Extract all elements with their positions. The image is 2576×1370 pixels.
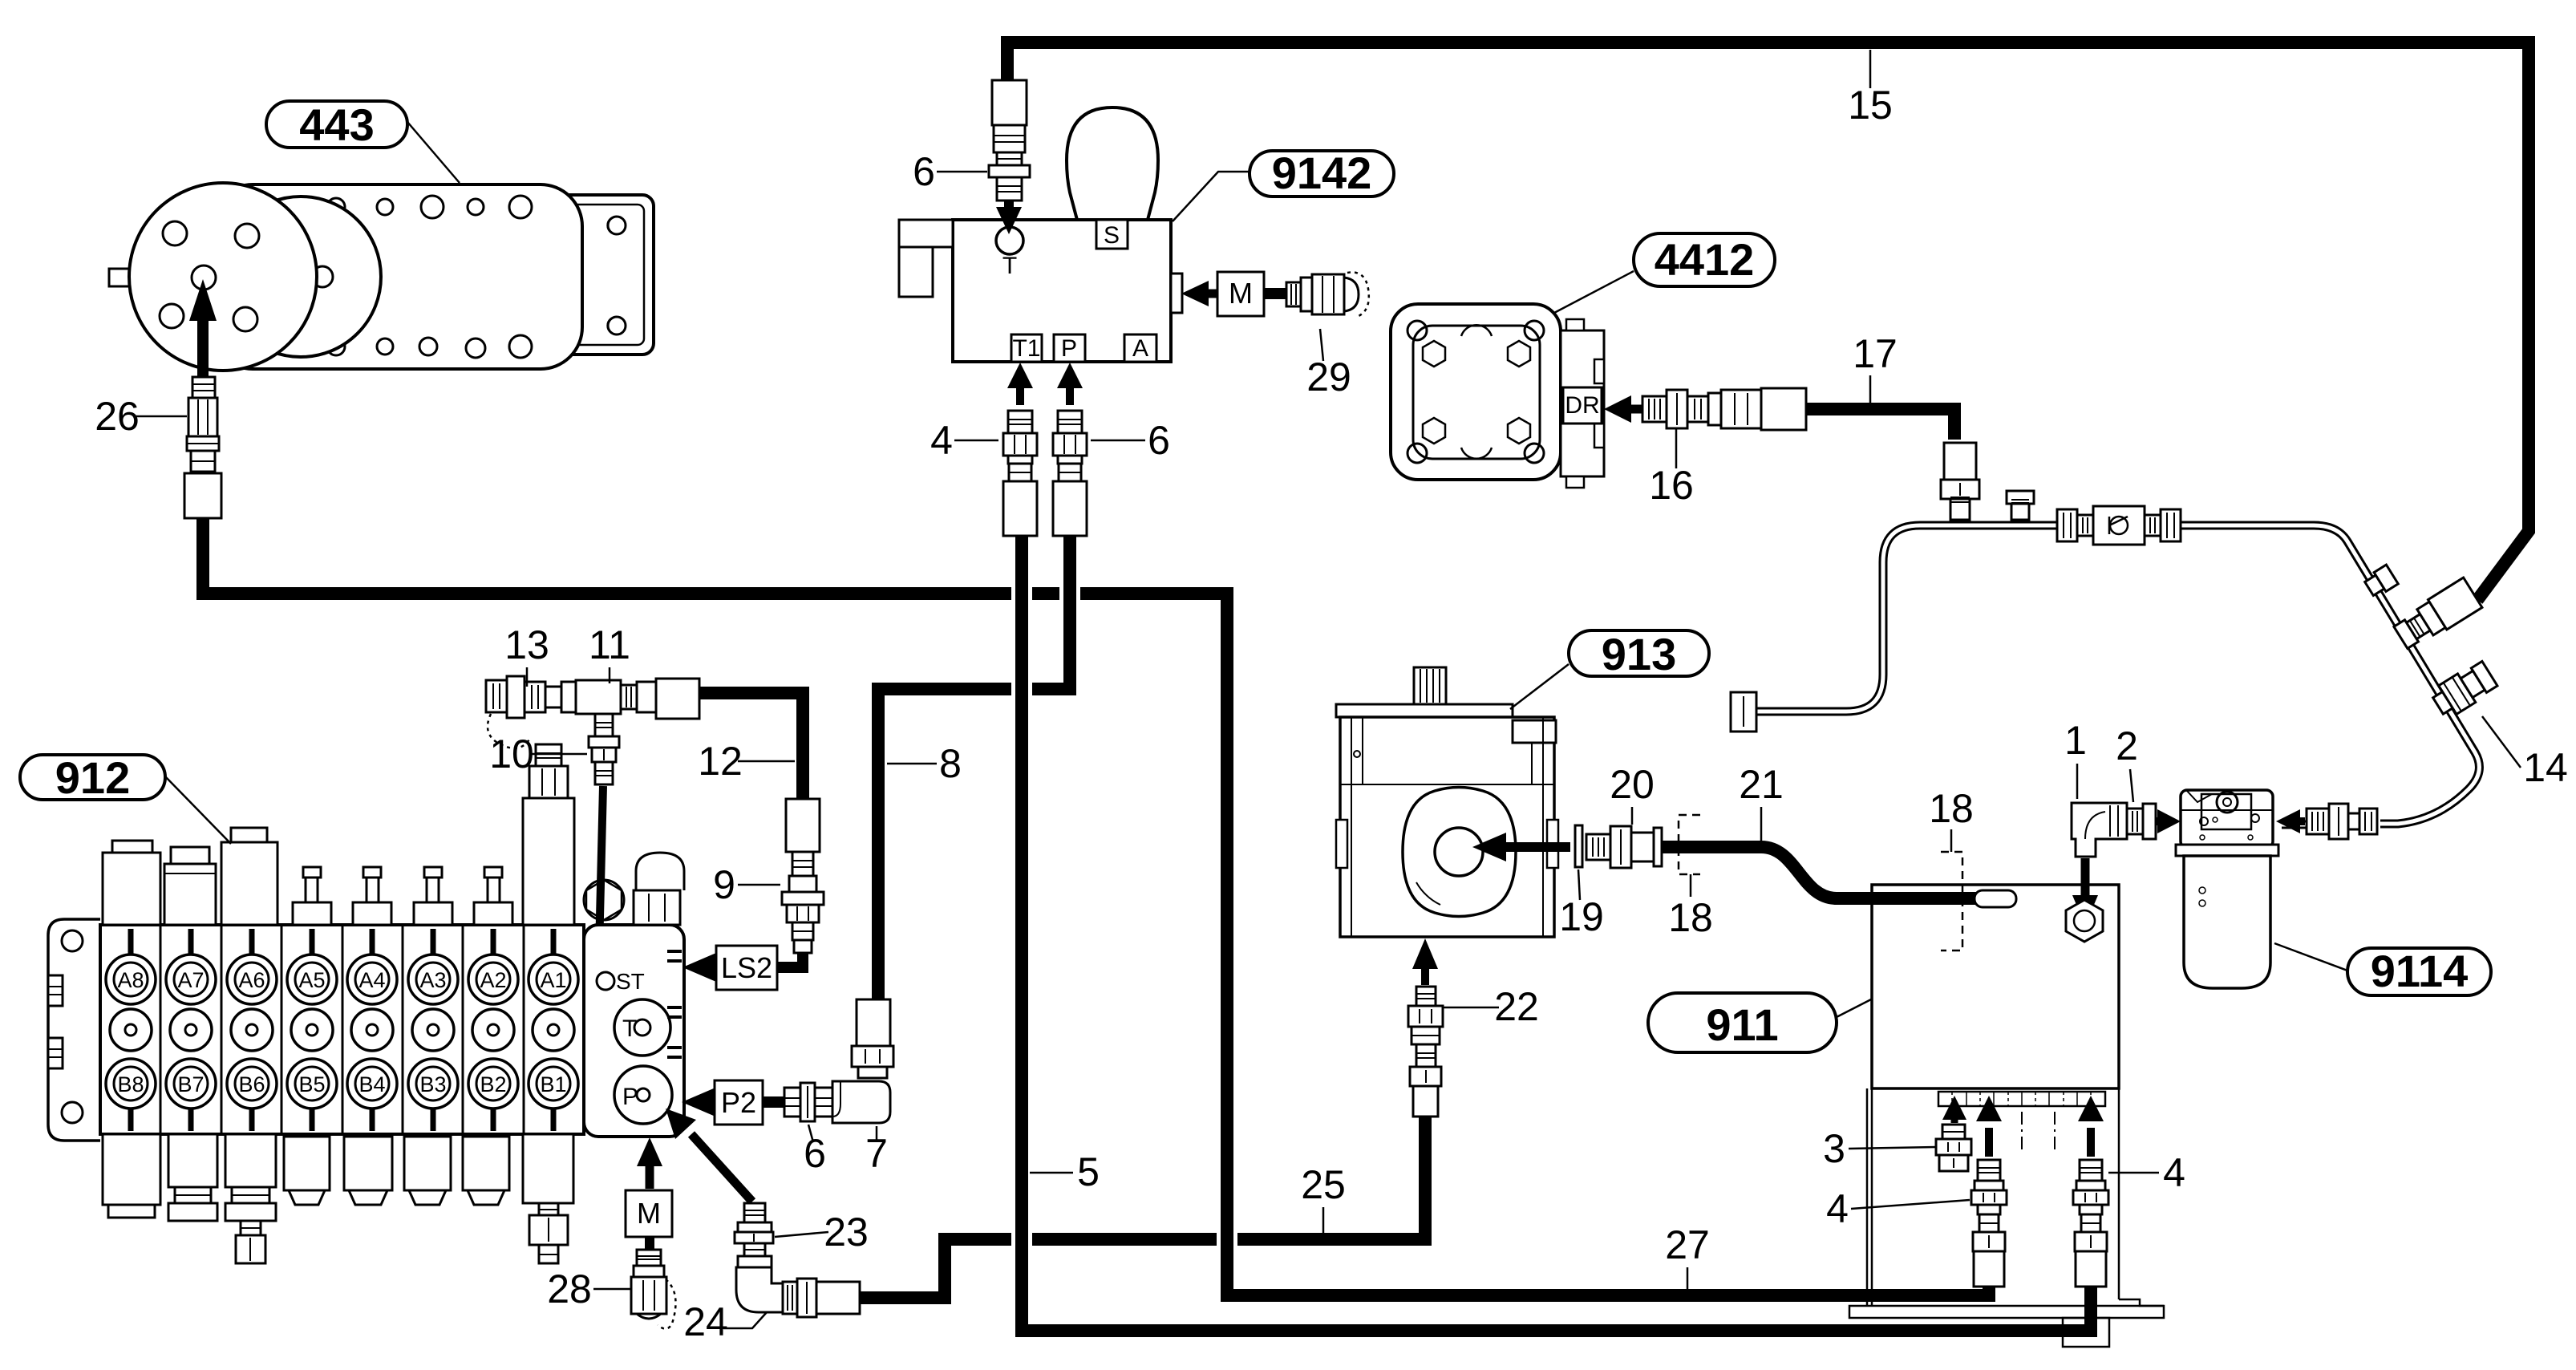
svg-text:11: 11: [589, 622, 630, 667]
label 13: [504, 622, 549, 687]
svg-text:16: 16: [1649, 463, 1694, 508]
svg-text:443: 443: [299, 99, 374, 150]
svg-text:29: 29: [1306, 355, 1351, 399]
label 5: [1030, 1149, 1100, 1194]
svg-text:14: 14: [2523, 745, 2568, 790]
motor 443 body: [211, 184, 582, 369]
svg-text:M: M: [637, 1197, 661, 1230]
fitting 23 (bulkhead): [735, 1203, 773, 1256]
svg-text:18: 18: [1929, 786, 1974, 831]
motor 443 middle flange circle: [221, 197, 381, 357]
tank 911 body: [1872, 885, 2119, 1088]
valve 9142 right port stub: [1171, 274, 1182, 313]
arrow elbow 1 into tank: [2072, 858, 2098, 926]
arrow P2 into end block: [682, 1088, 715, 1117]
hose coupling on tee outlet: [656, 679, 699, 719]
valve cap above A7: [164, 847, 216, 925]
solenoid below B4: [344, 1137, 392, 1205]
wire M box to fitting 28: [645, 1237, 654, 1250]
tee fitting 11: [576, 680, 656, 714]
fitting 16: [1642, 388, 1806, 430]
port box M (9142 gauge): [1217, 272, 1264, 316]
branch fitting 14 port (on pipe diagonal): [2429, 659, 2499, 720]
arrow LS2 into end block: [682, 953, 716, 982]
fitting 10 (below tee): [589, 714, 619, 784]
svg-text:A8: A8: [117, 968, 144, 992]
wire hose 15 (valve 9142 T port to test-point manifold, top run): [1007, 43, 2529, 600]
port box M (912): [626, 1190, 672, 1237]
svg-text:15: 15: [1848, 83, 1893, 128]
valve 912 section ports A6/B6: [227, 929, 277, 1131]
svg-text:9142: 9142: [1272, 148, 1372, 198]
label 10: [489, 732, 587, 776]
svg-text:5: 5: [1077, 1149, 1100, 1194]
svg-text:6: 6: [913, 149, 935, 194]
arrow into 9142 M port: [1181, 281, 1217, 306]
valve 9142 left solenoid blocks: [899, 220, 953, 297]
svg-text:10: 10: [489, 732, 534, 776]
label 24: [683, 1299, 767, 1344]
solenoid below B2: [463, 1137, 509, 1205]
label 18: [1929, 786, 1974, 831]
svg-text:4: 4: [930, 418, 953, 463]
fitting 4 (below T1 port): [1003, 411, 1037, 536]
fitting 9 (bulkhead union): [782, 892, 824, 953]
filter 9114 canister: [2176, 845, 2278, 988]
arrow into P port (from fitting 23): [666, 1109, 752, 1202]
svg-text:P: P: [622, 1084, 638, 1110]
label 8: [887, 741, 962, 786]
hose 21 tank inlet tip: [1975, 890, 2016, 907]
svg-text:B2: B2: [480, 1072, 506, 1096]
svg-text:DR: DR: [1565, 392, 1599, 419]
svg-text:A5: A5: [298, 968, 325, 992]
pipe end nut (part of pipe 14): [1731, 692, 1756, 732]
callout 911: [1648, 993, 1871, 1052]
pipe 14 (steel test-point pipe with branch ports): [1756, 525, 2479, 824]
pump 913 rotor housing: [1403, 788, 1516, 917]
label 6: [913, 149, 987, 194]
arrow pipe into filter head (right side): [2276, 809, 2305, 833]
svg-text:B8: B8: [117, 1072, 144, 1096]
valve 912 main block (8 sections): [100, 925, 584, 1134]
fitting 6 (above T port): [989, 80, 1030, 201]
svg-text:4: 4: [1826, 1186, 1849, 1231]
fitting on filter pipe: [2307, 804, 2377, 839]
pump 913 body: [1336, 704, 1558, 937]
svg-text:M: M: [1229, 277, 1253, 310]
wire hose 21 (pump 913 outlet to tank 911 suction): [1657, 847, 1979, 898]
svg-text:2: 2: [2116, 724, 2138, 768]
port box LS2: [716, 946, 777, 990]
label 27: [1665, 1222, 1710, 1289]
fitting 28 (test coupling with cap): [631, 1250, 676, 1329]
label 19: [1559, 869, 1604, 939]
callout 912: [20, 752, 231, 844]
pump 4412 body: [1391, 304, 1561, 480]
valve cap above A6: [221, 828, 277, 925]
pump 4412 port housing: [1561, 319, 1604, 488]
valve 912 section ports A5/B5: [287, 929, 337, 1131]
label 4: [2108, 1150, 2185, 1195]
callout 9114: [2274, 943, 2491, 996]
label 15: [1848, 50, 1893, 128]
label 6: [1091, 418, 1170, 463]
wire hose 5 (valve 9142 T1 port to tank via fitting 4): [1022, 533, 2091, 1331]
svg-text:12: 12: [698, 739, 743, 784]
hex plug on tank top: [2066, 900, 2103, 942]
svg-text:25: 25: [1301, 1162, 1346, 1207]
svg-text:9114: 9114: [2371, 946, 2469, 996]
clamp 18 (left, dashed): [1679, 815, 1700, 897]
svg-text:911: 911: [1706, 999, 1778, 1050]
label 29: [1306, 329, 1351, 399]
valve 912 section ports A1/B1: [529, 929, 578, 1131]
arrow fitting 22 into pump 913: [1412, 938, 1438, 985]
wire hose M to fitting 29 (9142 gauge port): [1264, 288, 1286, 299]
arrow into DR port: [1604, 395, 1642, 423]
svg-text:P2: P2: [721, 1086, 756, 1119]
svg-text:S: S: [1104, 222, 1120, 249]
elbow 24: [736, 1256, 860, 1317]
callout 4412: [1554, 233, 1775, 313]
branch port (small) on pipe diagonal: [2363, 565, 2399, 598]
valve 912 section ports A8/B8: [106, 929, 156, 1131]
fitting 6 (bulkhead at P2): [784, 1083, 832, 1121]
label 28: [547, 1267, 631, 1311]
wire hose 17 (pump 4412 DR port to test manifold): [1803, 409, 1954, 440]
port box S: [1096, 220, 1128, 249]
wire hose 8 (valve 9142 P port to P2 elbow 7): [878, 533, 1070, 999]
svg-text:B3: B3: [419, 1072, 446, 1096]
wire hose 25 (elbow 24 to pump 913 suction via fitting 22): [858, 1117, 1425, 1298]
pilot stem above A3: [414, 867, 452, 925]
svg-text:B6: B6: [238, 1072, 265, 1096]
accumulator (on valve 9142, port S): [1067, 107, 1158, 220]
valve 912 mounting bracket (left): [48, 919, 100, 1141]
fitting under hose 17 (on pipe): [1941, 443, 1979, 520]
tank strainer strip (hatched): [1938, 1092, 2105, 1106]
relief valve above A8: [103, 841, 160, 925]
label 6: [804, 1125, 826, 1176]
fitting 12 (hose coupling): [786, 799, 820, 892]
label 18: [1668, 895, 1713, 940]
svg-text:8: 8: [939, 741, 962, 786]
svg-text:P: P: [1061, 335, 1077, 362]
svg-text:21: 21: [1739, 762, 1784, 807]
wire hose 12 (tee 11 to pressure switch line, down to LS2): [699, 693, 803, 801]
svg-text:3: 3: [1823, 1126, 1845, 1171]
arrow fitting 4 (tank, right) into tank: [2078, 1096, 2104, 1157]
svg-text:27: 27: [1665, 1222, 1710, 1267]
plug fitting on pipe: [2007, 491, 2034, 520]
check valve (on pipe 14): [2057, 506, 2181, 545]
label 17: [1853, 331, 1898, 403]
tank 911 stand: [1849, 1088, 2164, 1347]
elbow 1: [2072, 803, 2127, 857]
fitting 26: [184, 377, 221, 518]
fitting 4 (tank, middle): [1971, 1160, 2007, 1287]
arrow fitting 4 (tank, middle) into tank: [1976, 1096, 2002, 1157]
svg-text:B5: B5: [298, 1072, 325, 1096]
svg-text:B4: B4: [358, 1072, 385, 1096]
svg-text:9: 9: [713, 862, 735, 907]
svg-text:A: A: [1132, 335, 1148, 362]
arrow into pump 913 inlet: [1472, 833, 1570, 861]
label 26: [95, 394, 187, 439]
fitting 22: [1408, 987, 1443, 1117]
svg-text:A2: A2: [480, 968, 506, 992]
label 11: [589, 622, 630, 683]
svg-text:26: 26: [95, 394, 140, 439]
svg-text:T1: T1: [1012, 335, 1040, 362]
pipe stub filter head to fitting stack: [2282, 821, 2306, 829]
svg-text:T: T: [1002, 253, 1017, 279]
arrow fitting 2 into filter: [2156, 809, 2181, 833]
port box T1: [1011, 334, 1042, 362]
label 3: [1823, 1126, 1936, 1171]
label 4: [930, 418, 998, 463]
wire hose 26-to-27 (motor 443 return: down, across, to tank via fitting 4): [203, 513, 1989, 1295]
filter 9114 head: [2181, 790, 2273, 848]
valve 912 section ports A2/B2: [468, 929, 518, 1131]
svg-text:T: T: [622, 1015, 637, 1042]
pump 913 shaft: [1414, 667, 1446, 704]
callout 913: [1510, 629, 1709, 709]
svg-text:A7: A7: [177, 968, 204, 992]
valve 912 section ports A7/B7: [166, 929, 216, 1131]
label 9: [713, 862, 780, 907]
label 1: [2064, 718, 2087, 799]
pilot stem above A4: [353, 867, 391, 925]
svg-text:ST: ST: [616, 969, 645, 994]
valve 912 section ports A4/B4: [347, 929, 397, 1131]
inlet fitting on end block: [634, 853, 684, 925]
end cap below B1 with test fitting: [523, 1134, 573, 1263]
svg-text:A1: A1: [540, 968, 566, 992]
arrow up into T1 port: [1007, 363, 1033, 405]
label 25: [1301, 1162, 1346, 1233]
label 22: [1444, 984, 1539, 1029]
label 4: [1826, 1186, 1970, 1231]
pilot stem above A2: [474, 867, 512, 925]
valve 912 inlet end block: [584, 925, 684, 1137]
tank internal suction dash-dot lines: [2022, 1112, 2055, 1153]
label 16: [1649, 428, 1694, 508]
fitting 6 (below P port): [1053, 411, 1087, 536]
motor 443 mounting bracket: [551, 195, 654, 355]
svg-text:B7: B7: [177, 1072, 204, 1096]
arrow up into P port: [1057, 363, 1083, 405]
svg-text:A6: A6: [238, 968, 265, 992]
wire hose LS2 feed (fitting 9 to LS2 port): [777, 951, 803, 967]
label 20: [1610, 762, 1655, 825]
svg-text:18: 18: [1668, 895, 1713, 940]
end cap below B7: [168, 1134, 217, 1221]
solenoid below B5: [284, 1137, 330, 1205]
svg-text:24: 24: [683, 1299, 728, 1344]
fitting 3: [1936, 1125, 1971, 1171]
relief valve above A1: [523, 744, 574, 925]
fitting 20: [1586, 826, 1662, 868]
label 12: [698, 739, 795, 784]
callout 9142: [1173, 148, 1394, 221]
arrow fitting 3 into tank: [1942, 1096, 1966, 1123]
svg-text:LS2: LS2: [721, 951, 772, 984]
svg-text:17: 17: [1853, 331, 1898, 376]
valve 912 section ports A3/B3: [408, 929, 458, 1131]
callout 443: [266, 99, 460, 183]
svg-text:6: 6: [804, 1131, 826, 1176]
port box P2: [715, 1080, 763, 1125]
svg-text:22: 22: [1494, 984, 1539, 1029]
end cap below B6 with test fitting: [225, 1134, 276, 1263]
svg-text:6: 6: [1148, 418, 1170, 463]
label 21: [1739, 762, 1784, 841]
svg-text:28: 28: [547, 1267, 592, 1311]
svg-text:913: 913: [1602, 629, 1676, 679]
svg-text:13: 13: [504, 622, 549, 667]
quick coupler 13 (with cap chain): [486, 676, 576, 748]
port box P: [1054, 334, 1085, 362]
fitting 29 (test coupling with cap): [1286, 272, 1369, 316]
solenoid below B3: [404, 1137, 451, 1205]
port box DR: [1563, 387, 1602, 424]
svg-text:4: 4: [2163, 1150, 2185, 1195]
svg-text:4412: 4412: [1655, 234, 1755, 285]
valve 9142 body: [953, 220, 1171, 362]
svg-text:A3: A3: [419, 968, 446, 992]
fitting 4 (tank, right): [2073, 1160, 2108, 1287]
arrow into motor port (from fitting 26): [189, 279, 217, 405]
svg-text:B1: B1: [540, 1072, 566, 1096]
svg-text:19: 19: [1559, 894, 1604, 939]
label 14: [2482, 716, 2568, 790]
label 2: [2116, 724, 2138, 802]
label 23: [775, 1210, 869, 1254]
arrow into T port: [996, 201, 1022, 234]
port box A: [1124, 334, 1156, 362]
svg-text:912: 912: [55, 752, 130, 803]
pilot stem above A5: [293, 867, 331, 925]
arrow fitting 10 to ST port: [586, 786, 611, 979]
svg-text:20: 20: [1610, 762, 1655, 807]
svg-text:23: 23: [824, 1210, 869, 1254]
washer 19: [1575, 825, 1582, 867]
label 7: [865, 1126, 888, 1176]
elbow 7: [832, 999, 893, 1123]
svg-text:A4: A4: [358, 968, 385, 992]
tilted hex plug on end block: [584, 880, 624, 920]
svg-text:1: 1: [2064, 718, 2087, 763]
fitting 2: [2127, 804, 2156, 839]
motor 443 front flange: [109, 183, 317, 371]
clamp 18 (right, dashed): [1941, 829, 1962, 950]
branch fitting for hose 15 (on pipe diagonal): [2392, 578, 2482, 652]
end cap below B8: [103, 1134, 160, 1218]
arrow M into end block: [637, 1137, 662, 1189]
wire hose P2 box to fitting 6: [763, 1096, 784, 1108]
